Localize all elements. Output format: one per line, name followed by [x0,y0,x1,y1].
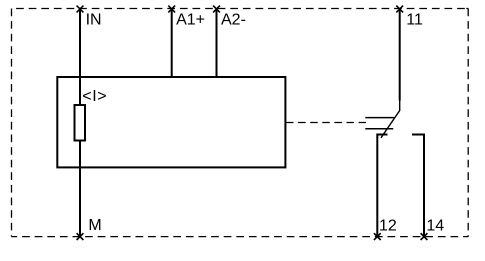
svg-text:<I>: <I> [82,88,107,105]
svg-text:A1+: A1+ [176,12,205,29]
svg-text:11: 11 [406,12,423,29]
svg-text:12: 12 [379,218,397,235]
svg-text:M: M [88,217,101,234]
svg-text:IN: IN [86,12,102,29]
svg-text:14: 14 [426,218,444,235]
svg-text:A2-: A2- [221,12,246,29]
